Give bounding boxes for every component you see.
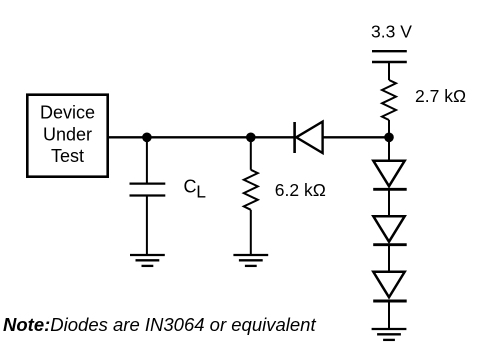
svg-text:Under: Under	[43, 124, 92, 144]
svg-text:2.7 kΩ: 2.7 kΩ	[415, 86, 466, 106]
svg-text:6.2 kΩ: 6.2 kΩ	[275, 180, 326, 200]
svg-text:Test: Test	[51, 146, 84, 166]
svg-text:Note:Diodes are IN3064 or equi: Note:Diodes are IN3064 or equivalent	[3, 314, 316, 335]
svg-text:Device: Device	[40, 103, 95, 123]
svg-text:3.3 V: 3.3 V	[371, 22, 412, 42]
svg-text:L: L	[196, 182, 206, 202]
svg-text:C: C	[184, 177, 197, 197]
